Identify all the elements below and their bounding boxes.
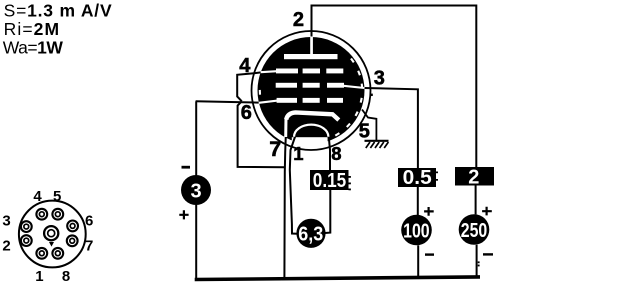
svg-text:5: 5	[53, 188, 61, 205]
svg-text:0.15: 0.15	[313, 170, 347, 192]
svg-text:3: 3	[2, 213, 10, 230]
svg-text:Ri=2M: Ri=2M	[4, 19, 61, 39]
svg-text:2: 2	[468, 166, 479, 188]
svg-text:8: 8	[331, 143, 341, 164]
svg-text:6: 6	[85, 213, 93, 230]
svg-text:4: 4	[33, 188, 42, 205]
svg-text:6,3: 6,3	[298, 224, 323, 246]
svg-text:250: 250	[461, 220, 488, 242]
svg-text:4: 4	[239, 55, 251, 77]
svg-text:S=1.3 m A/V: S=1.3 m A/V	[4, 0, 113, 20]
svg-text:2: 2	[2, 238, 10, 255]
svg-text:1: 1	[293, 143, 303, 164]
svg-text:8: 8	[62, 268, 70, 284]
svg-text:100: 100	[403, 221, 430, 243]
svg-text:3: 3	[374, 68, 385, 90]
svg-text:Wa=1W: Wa=1W	[3, 38, 64, 58]
svg-text:7: 7	[269, 137, 281, 161]
svg-text:5: 5	[359, 121, 370, 143]
svg-text:0.5: 0.5	[403, 167, 432, 189]
svg-text:3: 3	[190, 180, 201, 202]
svg-text:7: 7	[85, 238, 93, 255]
svg-text:2: 2	[293, 9, 304, 31]
svg-text:6: 6	[241, 102, 252, 124]
svg-text:1: 1	[35, 268, 43, 284]
